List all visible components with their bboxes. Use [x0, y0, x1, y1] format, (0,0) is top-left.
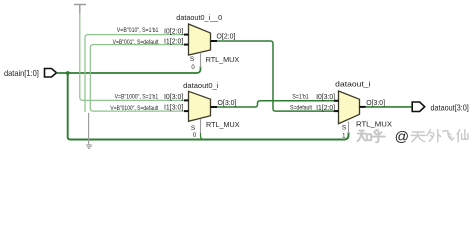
ground symbol — [86, 145, 92, 148]
svg-text:dataout[3:0]: dataout[3:0] — [431, 103, 469, 113]
svg-text:dataout0_i__0: dataout0_i__0 — [176, 13, 222, 22]
mux U1 pin I1 stub — [184, 44, 189, 46]
svg-text:0: 0 — [193, 133, 197, 139]
wire mux3 O to output port — [366, 106, 412, 108]
svg-text:dataout_i: dataout_i — [335, 79, 371, 88]
svg-text:S=default: S=default — [290, 105, 312, 111]
node junction datain — [66, 71, 70, 75]
svg-text:O[2:0]: O[2:0] — [217, 34, 236, 41]
wire mux2 O to mux3 I0 — [217, 101, 334, 107]
svg-text:I0[3:0]: I0[3:0] — [164, 94, 183, 101]
svg-text:V=B"1000", S=1'b1: V=B"1000", S=1'b1 — [115, 94, 159, 100]
mux U2 pin I1 stub — [184, 110, 189, 112]
mux U1 pin O stub — [211, 40, 218, 42]
svg-text:datain[1:0]: datain[1:0] — [4, 68, 39, 78]
svg-text:RTL_MUX: RTL_MUX — [206, 120, 240, 129]
svg-text:S: S — [191, 125, 196, 132]
svg-text:RTL_MUX: RTL_MUX — [206, 55, 240, 64]
output port dataout[3:0] — [412, 102, 469, 113]
mux U1 dataout0_i__0 body — [189, 24, 211, 55]
svg-text:S: S — [342, 125, 347, 132]
wire datain drop to bottom rail — [68, 73, 349, 140]
power const T symbol — [74, 5, 86, 15]
mux U3 pin O stub — [360, 106, 366, 108]
svg-text:I0[3:0]: I0[3:0] — [316, 94, 335, 101]
svg-text:I1[2:0]: I1[2:0] — [164, 38, 183, 45]
mux U2 pin I0 stub — [184, 99, 189, 101]
svg-text:V=B"001", S=default: V=B"001", S=default — [113, 40, 159, 46]
wire mux1 O to mux3 I1 — [217, 41, 334, 111]
ground const stem — [88, 113, 90, 145]
svg-text:V=B"010", S=1'b1: V=B"010", S=1'b1 — [117, 28, 159, 34]
mux U1 S pin stub — [200, 53, 202, 68]
svg-text:V=B"0100", S=default: V=B"0100", S=default — [110, 106, 158, 112]
svg-text:0: 0 — [191, 65, 195, 71]
wire const V=B"001" to mux1 I1 / V=B"0100" to mux2 I1 — [90, 45, 184, 112]
input port datain[1:0] — [4, 68, 57, 78]
mux U1 pin I0 stub — [184, 34, 189, 36]
mux U2 S pin stub — [200, 119, 202, 133]
watermark 知乎 @天外飞仙 — [358, 130, 385, 143]
mux U2 pin O stub — [211, 106, 218, 108]
svg-text:@: @ — [395, 129, 409, 145]
wire const V=B"010" to mux1 I0 and down to ground — [85, 35, 185, 112]
svg-text:I1[3:0]: I1[3:0] — [164, 105, 183, 112]
wire datain to mux1 S — [57, 67, 201, 74]
svg-text:S=1'b1: S=1'b1 — [292, 94, 309, 100]
svg-text:RTL_MUX: RTL_MUX — [356, 119, 392, 128]
svg-text:S: S — [190, 56, 195, 63]
svg-text:O[3:0]: O[3:0] — [218, 100, 237, 107]
wire mux2 S stub to rail — [201, 133, 204, 140]
svg-text:I0[2:0]: I0[2:0] — [164, 28, 183, 35]
mux U3 S pin stub — [348, 122, 350, 134]
mux U3 pin I0 stub — [334, 100, 338, 102]
mux U3 pin I1 stub — [334, 110, 338, 112]
svg-text:I1[2:0]: I1[2:0] — [316, 105, 335, 112]
wire const V=B"1000" vertical from T to mux2 I0 — [80, 13, 185, 100]
svg-text:dataout0_i: dataout0_i — [183, 81, 219, 90]
mux U3 dataout_i body — [339, 91, 360, 124]
mux U2 dataout0_i body — [189, 91, 211, 121]
